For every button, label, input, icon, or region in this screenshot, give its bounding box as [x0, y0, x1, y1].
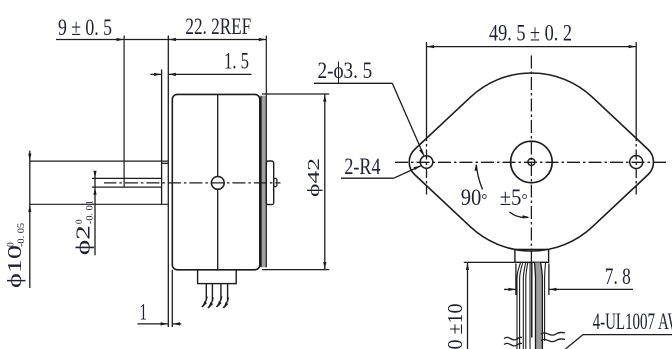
svg-text:7. 8: 7. 8 [605, 265, 631, 290]
dim 1 (flange thickness) [138, 322, 182, 325]
shaft tip / 9 dim extension [123, 36, 125, 188]
svg-text:-0. 05: -0. 05 [17, 223, 27, 247]
left hole vertical centerline [426, 131, 428, 195]
front flange plate [168, 36, 172, 328]
dim 30±10 [464, 262, 515, 349]
svg-text:9 ± 0. 5: 9 ± 0. 5 [58, 16, 112, 41]
svg-text:1: 1 [140, 301, 147, 326]
svg-text:0: 0 [75, 219, 85, 224]
wire break marks [504, 332, 565, 346]
right mounting hole [630, 156, 643, 169]
center shaft circle phi2 [528, 159, 535, 166]
svg-text:30 ±10: 30 ±10 [443, 304, 467, 349]
dim phi42 side [262, 94, 329, 270]
center pilot circle phi10 [511, 141, 553, 183]
vertical centerline front [530, 56, 532, 248]
svg-text:0: 0 [7, 242, 17, 247]
wire E edge front [545, 263, 546, 342]
svg-text:ϕ2: ϕ2 [73, 225, 95, 255]
dim 7.8 [504, 264, 633, 296]
dim 9±0.5 and 22.2REF line [56, 38, 266, 41]
horizontal centerline front [395, 161, 668, 163]
wire A front [517, 263, 523, 349]
wire 4 side [223, 284, 228, 309]
shaft phi2 [92, 178, 162, 187]
dim 49.5±0.2 [427, 42, 637, 131]
can center pivot circle [211, 177, 224, 190]
dim phi10 [28, 151, 31, 288]
svg-text:ϕ10: ϕ10 [4, 245, 26, 288]
svg-text:ϕ42: ϕ42 [304, 158, 323, 197]
angle 90° [461, 163, 488, 210]
wire C front (center, dark) [530, 263, 532, 349]
dim phi2 [93, 171, 96, 256]
label 4-UL1007 AWG [566, 310, 672, 349]
dim text phi42 (rotated) [304, 158, 323, 197]
svg-text:2-ϕ3. 5: 2-ϕ3. 5 [318, 59, 373, 84]
angle ±5° [500, 186, 530, 218]
rear bearing boss [266, 161, 273, 205]
svg-text:49. 5 ± 0. 2: 49. 5 ± 0. 2 [489, 21, 572, 46]
terminal block front [515, 249, 549, 262]
pilot boss [162, 70, 169, 205]
left mounting hole [420, 156, 433, 169]
label 2-phi3.5 [314, 59, 424, 156]
can seam line [217, 95, 219, 270]
oval flange outline [409, 73, 653, 251]
rear end cap (gray band) [261, 96, 266, 267]
rear shaft bump [274, 178, 277, 186]
wire 1 side [202, 284, 207, 308]
svg-text:2-R4: 2-R4 [344, 155, 380, 180]
right hole vertical centerline [635, 131, 637, 195]
side view centerline [104, 182, 281, 184]
motor body (can) [172, 94, 259, 269]
wire 3 side [216, 284, 221, 308]
label phi10 0/-0.05 (rotated) [4, 223, 27, 288]
wire B front [523, 263, 528, 349]
label 2-R4 [341, 155, 421, 180]
label phi2 0/-0.01 (rotated) [73, 200, 96, 255]
phi10 extension lines [30, 161, 169, 204]
terminal block side [198, 270, 237, 284]
svg-text:22. 2REF: 22. 2REF [185, 15, 251, 40]
wire 2 side [208, 284, 213, 309]
svg-text:-0. 01: -0. 01 [86, 200, 96, 224]
svg-text:4-UL1007 AWG: 4-UL1007 AWG [593, 310, 672, 335]
dim 1.5 [150, 73, 251, 76]
label 30±10 (rotated) [443, 304, 467, 349]
svg-text:1. 5: 1. 5 [224, 50, 249, 75]
22.2REF right extension [265, 36, 267, 96]
wire D front (gray) [534, 263, 542, 349]
